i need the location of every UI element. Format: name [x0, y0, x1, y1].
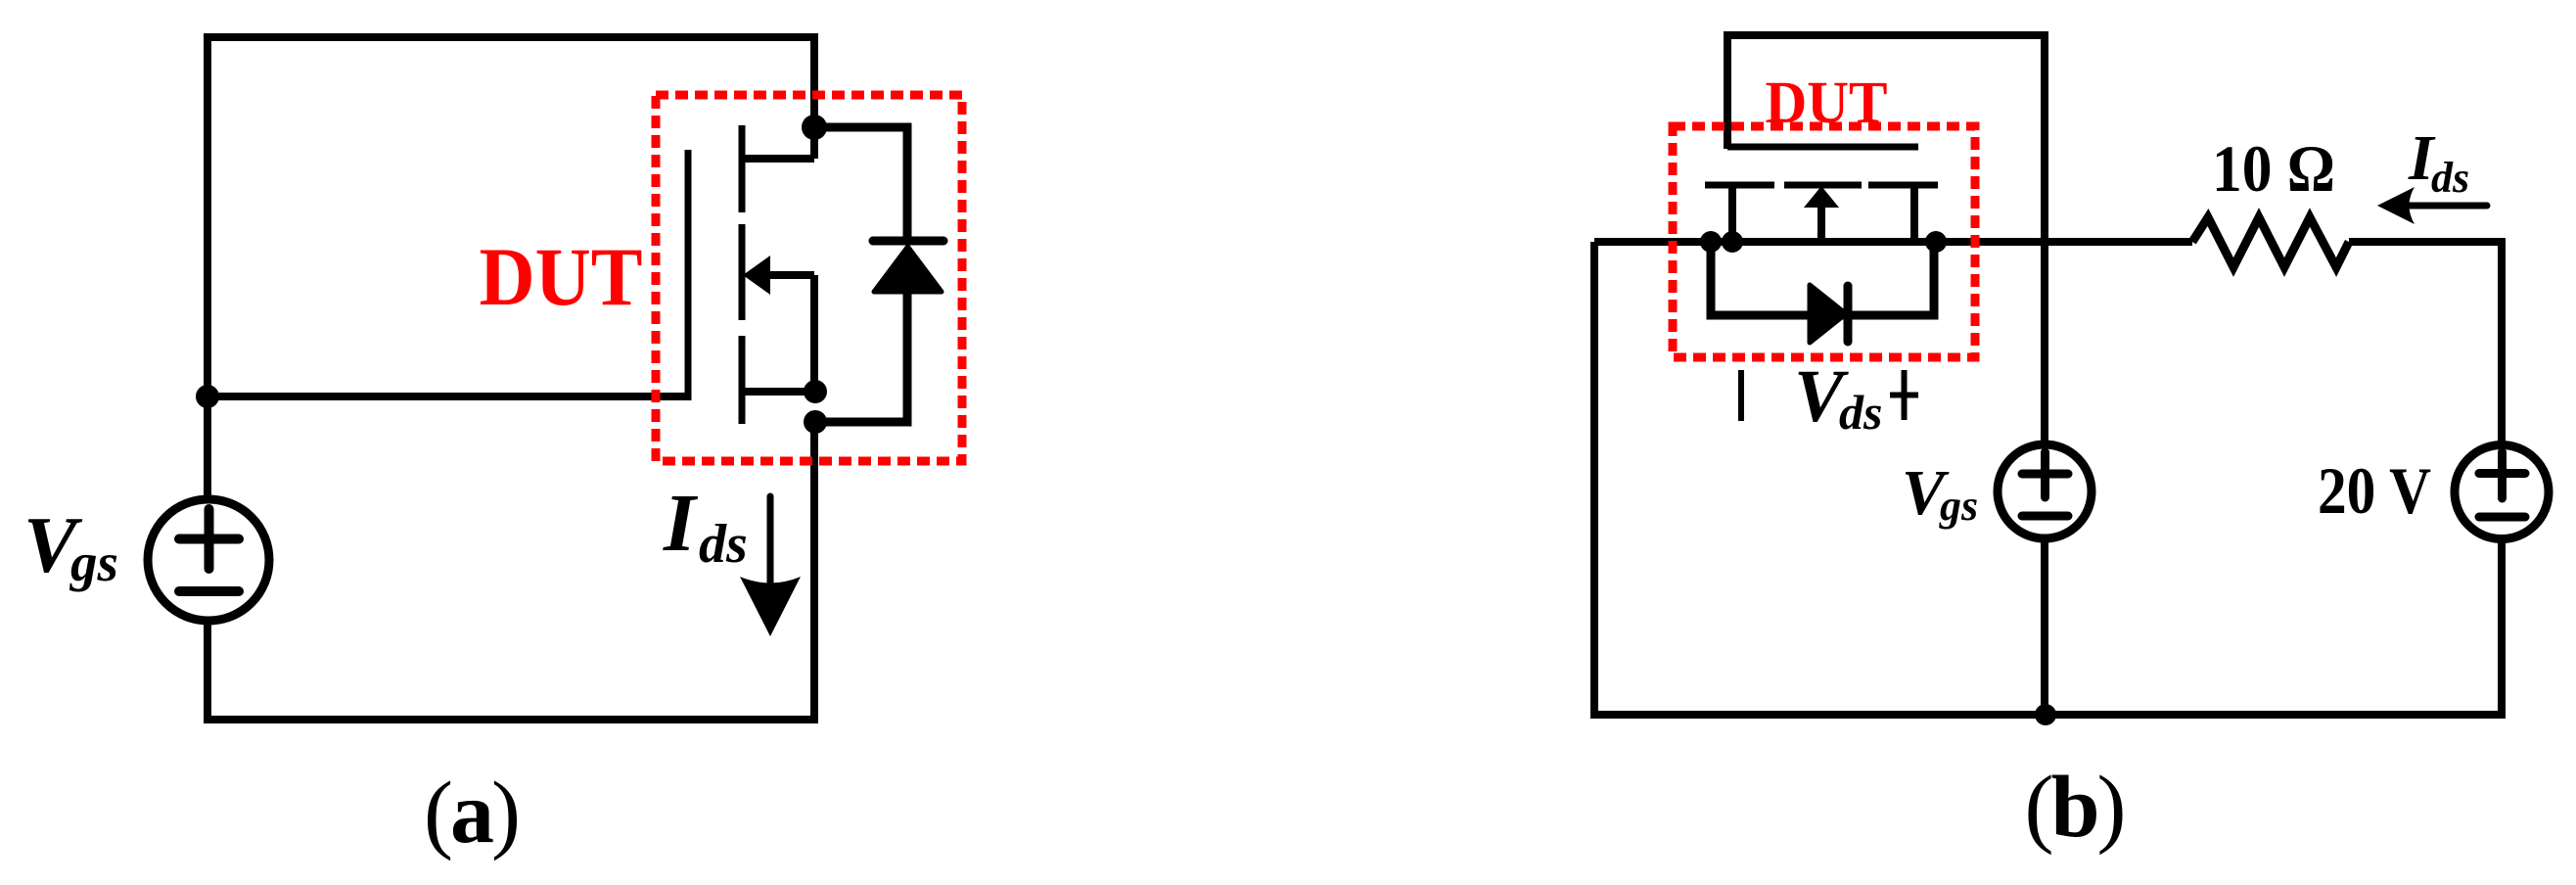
- DUT boundary red dashed box (b): [1673, 126, 1975, 357]
- label Vgs (a): [23, 500, 118, 592]
- wire: Vgs source to bottom junction (b): [2041, 538, 2048, 715]
- svg-text:gs: gs: [1939, 482, 1978, 530]
- label Ids (b): [2408, 122, 2469, 202]
- svg-text:I: I: [663, 478, 699, 569]
- label Vgs (b): [1902, 457, 1978, 530]
- transistor DUT MOSFET source lead (b): [1910, 185, 1918, 242]
- wire: source return vertical (a): [810, 422, 818, 723]
- wire: resistor to 20V source (b): [2349, 238, 2502, 444]
- wire: gate loop right vertical down to Vgs (b): [2041, 35, 2048, 444]
- svg-text:(a): (a): [424, 765, 518, 862]
- transistor DUT MOSFET gate electrode (b): [1727, 144, 1918, 151]
- node: gate junction dot (a): [196, 385, 219, 408]
- wire: gate loop left vertical (b): [1724, 35, 1731, 149]
- transistor DUT MOSFET body lead with arrow (b): [1804, 186, 1839, 242]
- node: source junction dot (a): [804, 380, 827, 403]
- svg-text:ds: ds: [2431, 154, 2469, 202]
- voltage source Vgs (a): [148, 499, 269, 621]
- svg-text:20 V: 20 V: [2318, 453, 2431, 528]
- svg-text:(b): (b): [2024, 759, 2123, 856]
- wire: 20V source to bottom rail (b): [2498, 538, 2506, 719]
- node: drain dot (a): [802, 115, 827, 140]
- wire: body diode branch (b): [1711, 242, 1934, 315]
- wire: left rail (b): [1590, 242, 1598, 719]
- node: source junction dot (b): [1925, 231, 1947, 253]
- diode D body diode (a): [873, 241, 943, 292]
- svg-text:DUT: DUT: [480, 231, 643, 323]
- DUT boundary red dashed box (a): [656, 95, 962, 461]
- transistor DUT MOSFET drain lead (b): [1728, 185, 1736, 242]
- transistor DUT MOSFET gate electrode (a): [685, 150, 692, 400]
- label Ids (a): [663, 478, 748, 575]
- svg-text:DUT: DUT: [1766, 70, 1888, 136]
- node: bottom junction dot (b): [2035, 704, 2056, 725]
- node: drain junction dot (b): [1722, 231, 1743, 253]
- svg-text:10 Ω: 10 Ω: [2212, 131, 2335, 206]
- arrow Ids leftward (b): [2377, 187, 2487, 224]
- resistor R 10 ohm zigzag (b): [2192, 217, 2349, 267]
- svg-text:ds: ds: [1839, 385, 1882, 440]
- wire: Vgs bottom to bottom rail (a): [204, 619, 211, 720]
- voltage source Vgs (b): [1998, 444, 2092, 538]
- svg-text:ds: ds: [699, 514, 748, 575]
- transistor DUT MOSFET channel dashed (b): [1705, 182, 1938, 189]
- transistor DUT MOSFET drain lead (a): [742, 155, 814, 163]
- wire: bottom rail (a): [204, 716, 818, 723]
- transistor DUT MOSFET channel dashed (a): [739, 125, 746, 424]
- wire: left rail to Vgs top (a): [204, 396, 211, 501]
- label Vds polarity plus: [1890, 370, 1918, 420]
- wire: main source-drain rail (b): [1594, 238, 2192, 246]
- wire: drain feed vertical (a): [810, 37, 818, 159]
- transistor DUT MOSFET body lead with arrow (a): [743, 256, 814, 392]
- wire: top rail (a): [204, 33, 818, 41]
- diode D body diode (b): [1810, 285, 1848, 343]
- wire: body diode branch (a): [814, 127, 907, 422]
- node: diode anode junction dot (a): [804, 410, 827, 434]
- wire: gate wire (a): [207, 393, 688, 400]
- wire: gate loop top rail (b): [1724, 31, 2048, 39]
- transistor DUT MOSFET source lead (a): [742, 388, 814, 396]
- wire: outer loop left rail upper (a): [204, 37, 211, 396]
- arrow Ids downward (a): [740, 496, 801, 636]
- voltage source 20V (b): [2455, 445, 2549, 539]
- svg-text:gs: gs: [69, 533, 118, 592]
- label Vds polarity minus bar: [1738, 370, 1744, 421]
- label Vds: [1794, 355, 1882, 440]
- wire: bottom rail (b): [1590, 711, 2506, 719]
- node: diode cathode junction dot (b): [1700, 231, 1722, 253]
